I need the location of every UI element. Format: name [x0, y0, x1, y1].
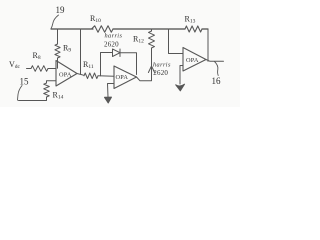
- svg-text:R11: R11: [83, 60, 94, 70]
- resistor R14: [44, 83, 50, 97]
- ground (op2): [105, 97, 112, 103]
- resistor R13: [185, 26, 202, 32]
- svg-text:R14: R14: [53, 91, 64, 101]
- resistor R8: [31, 66, 48, 72]
- wire: op3 output: [206, 60, 224, 62]
- wire: rail drop to op3 inverting input: [169, 29, 184, 54]
- wire: op2 noninverting input to ground: [108, 84, 115, 98]
- wire: top feedback rail: [51, 28, 208, 30]
- svg-text:R12: R12: [133, 35, 144, 45]
- junction arrow on R12 leg: [148, 66, 154, 73]
- svg-text:R9: R9: [63, 44, 71, 54]
- resistor R11: [84, 73, 98, 79]
- svg-text:harris: harris: [153, 62, 171, 69]
- svg-text:R8: R8: [33, 51, 41, 61]
- wire: R11 to op2 inverting input: [98, 75, 114, 77]
- svg-text:Vdc: Vdc: [9, 60, 21, 70]
- svg-text:OPA: OPA: [186, 57, 199, 64]
- svg-text:19: 19: [56, 5, 66, 15]
- wire: R12 leg upper: [151, 48, 153, 66]
- ground (op3): [176, 84, 185, 91]
- wire: rail drop to op1 output: [80, 29, 82, 74]
- wire: op3 noninverting input to ground: [180, 66, 183, 85]
- svg-text:2620: 2620: [153, 69, 168, 77]
- svg-text:16: 16: [212, 76, 222, 86]
- svg-text:15: 15: [20, 77, 30, 87]
- wire: Vdc lead: [27, 68, 32, 70]
- wire: R12 top to rail: [151, 29, 153, 31]
- resistor R12: [149, 31, 155, 48]
- op-amp OPA2: [114, 66, 137, 89]
- resistor R10: [92, 26, 114, 32]
- op-amp OPA1: [56, 61, 77, 87]
- leader line for 16: [215, 62, 219, 76]
- wire: diode feedback loop left leg: [101, 53, 113, 76]
- wire: R14 bottom to common rail 15: [19, 97, 47, 101]
- svg-text:R13: R13: [185, 15, 196, 25]
- diode D1: [113, 49, 121, 57]
- svg-text:2620: 2620: [104, 41, 119, 49]
- wire: R8 to op1 input: [48, 68, 56, 70]
- wire: op1 noninverting input: [47, 81, 57, 83]
- wire: op2 output to R12 bottom: [137, 66, 152, 81]
- wire: feedback rail corner down to op3 output: [207, 29, 209, 61]
- svg-text:OPA: OPA: [116, 74, 129, 81]
- leader line for 15: [18, 86, 23, 101]
- svg-text:OPA: OPA: [59, 72, 72, 79]
- op-amp OPA3: [183, 48, 206, 72]
- wire: rail corner down to R9: [57, 29, 59, 44]
- resistor R9: [55, 44, 60, 58]
- svg-text:harris: harris: [105, 33, 123, 40]
- wire: op1 output: [77, 74, 84, 76]
- wire: R9 bottom to op1 inverting input: [57, 58, 59, 68]
- wire: diode loop right leg: [120, 53, 137, 75]
- svg-text:R10: R10: [90, 14, 101, 24]
- leader line for 19: [51, 15, 59, 29]
